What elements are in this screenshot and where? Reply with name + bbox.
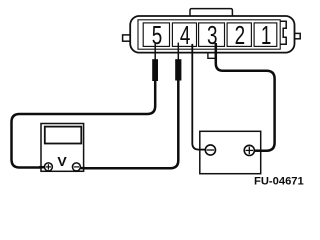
svg-text:V: V — [57, 155, 66, 169]
svg-text:FU-04671: FU-04671 — [254, 176, 304, 188]
svg-text:2: 2 — [235, 21, 246, 49]
svg-text:1: 1 — [261, 21, 272, 49]
svg-text:5: 5 — [152, 21, 163, 49]
svg-text:4: 4 — [180, 21, 191, 49]
